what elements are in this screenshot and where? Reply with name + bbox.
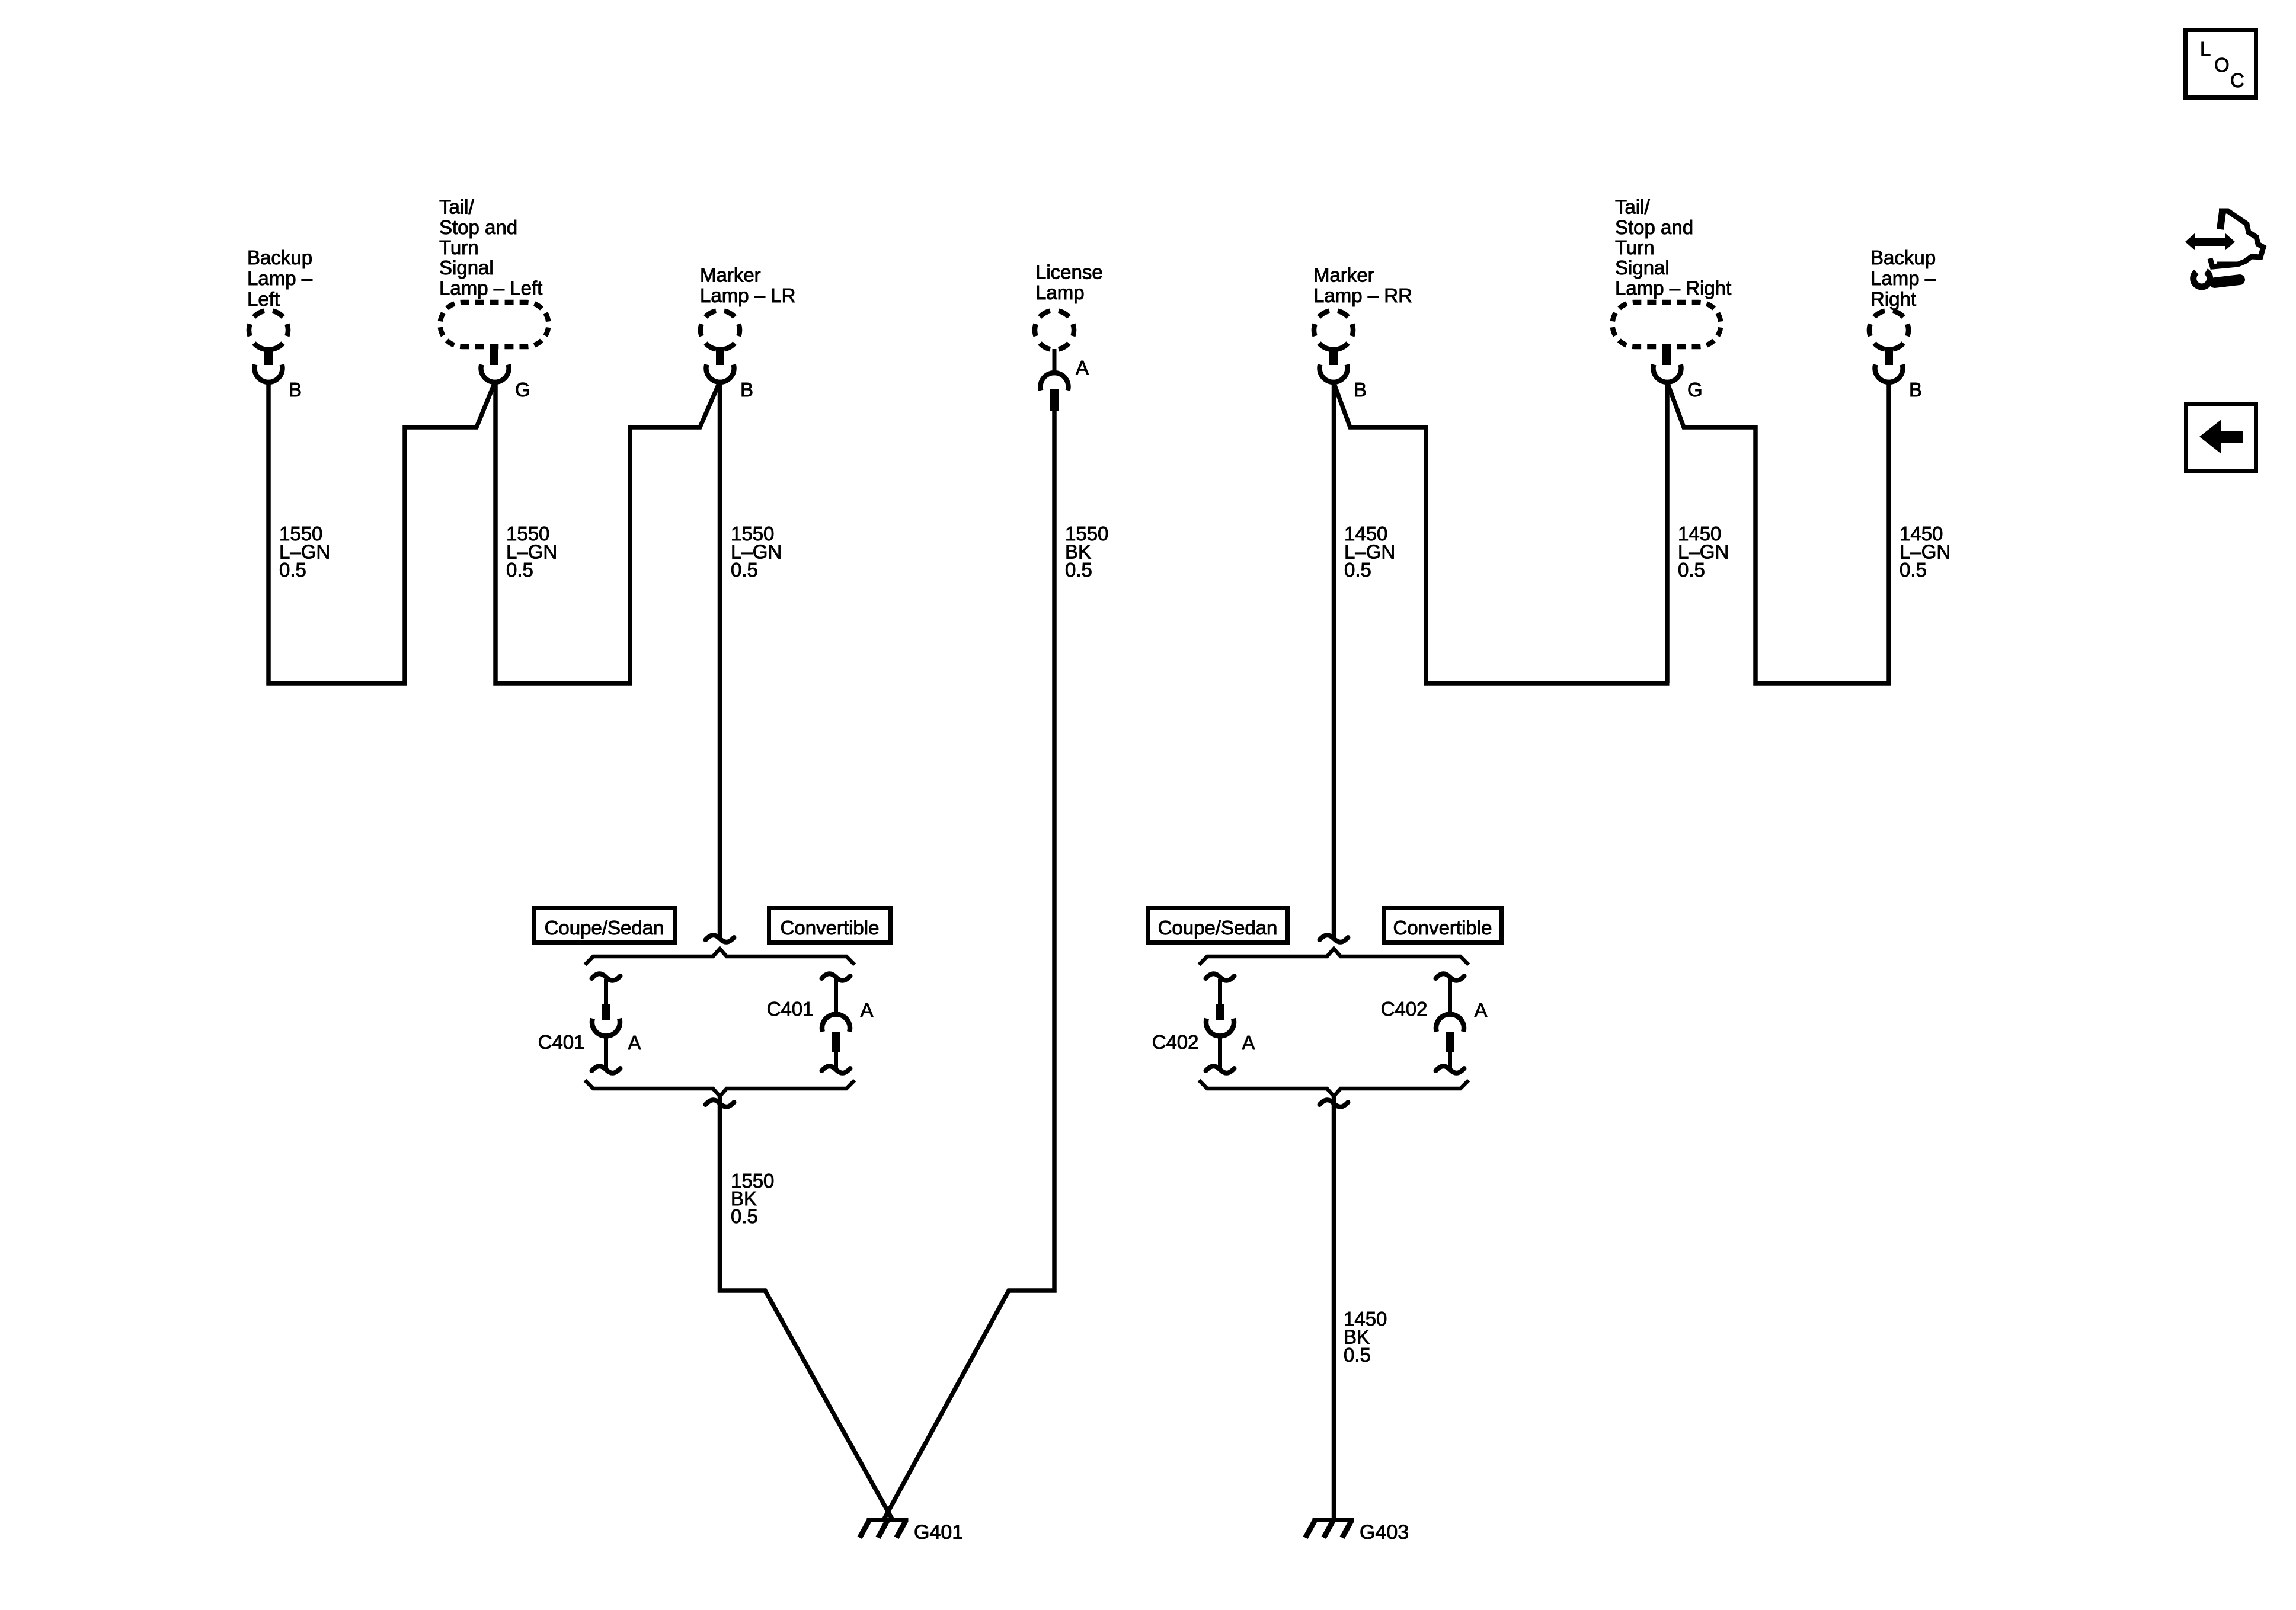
svg-text:Signal: Signal [1615, 257, 1670, 279]
wire break [706, 935, 734, 942]
svg-text:C401: C401 [767, 998, 814, 1020]
svg-text:G403: G403 [1360, 1521, 1409, 1544]
label: circuit 1450 L-GN 0.5 (tail right) [1678, 523, 1729, 581]
option box: Convertible (C402) [1384, 908, 1502, 943]
label: circuit 1550 BK 0.5 (to G401) [731, 1170, 774, 1227]
wire: Marker RR down to C402 (1450 L-GN) [1332, 382, 1336, 937]
svg-text:Marker: Marker [1313, 264, 1374, 286]
svg-text:Lamp – Right: Lamp – Right [1615, 277, 1731, 299]
svg-text:Lamp –: Lamp – [247, 267, 313, 289]
svg-text:G: G [515, 379, 530, 401]
svg-text:A: A [1475, 999, 1488, 1021]
svg-text:C402: C402 [1152, 1031, 1199, 1053]
svg-text:0.5: 0.5 [1065, 559, 1092, 581]
svg-text:Turn: Turn [439, 236, 479, 258]
wire: Backup R drop [1886, 382, 1891, 683]
svg-text:A: A [1242, 1032, 1255, 1054]
svg-text:Turn: Turn [1615, 236, 1655, 258]
lamp: Tail/Stop and Turn Signal Lamp - Left [439, 196, 549, 401]
split bracket top (C402) [1199, 949, 1469, 965]
svg-text:Lamp – Left: Lamp – Left [439, 277, 542, 299]
wire break [1320, 1100, 1348, 1107]
wire break [706, 1100, 734, 1107]
svg-text:A: A [1076, 357, 1089, 379]
lamp: Backup Lamp - Right [1869, 247, 1936, 401]
svg-text:0.5: 0.5 [1900, 559, 1927, 581]
svg-text:Convertible: Convertible [781, 917, 880, 939]
label: circuit 1550 BK 0.5 (license) [1065, 523, 1108, 581]
merge bracket bottom (C401) [585, 1080, 855, 1096]
lamp: Marker Lamp - RR [1313, 264, 1412, 401]
svg-text:Marker: Marker [700, 264, 761, 286]
svg-text:Lamp – LR: Lamp – LR [700, 284, 795, 306]
wire: Tail R drop [1665, 382, 1670, 683]
svg-text:Tail/: Tail/ [439, 196, 475, 218]
label: circuit 1450 L-GN 0.5 (marker RR) [1344, 523, 1395, 581]
svg-text:C402: C402 [1381, 998, 1428, 1020]
svg-text:0.5: 0.5 [506, 559, 533, 581]
svg-text:B: B [289, 379, 302, 401]
wire: Tail L to Marker LR (1550 L-GN) [495, 382, 720, 683]
svg-text:0.5: 0.5 [731, 1205, 758, 1227]
svg-text:A: A [628, 1032, 641, 1054]
svg-text:L: L [2200, 38, 2211, 60]
wire: Backup L to Tail L (1550 L-GN) [268, 382, 495, 683]
svg-text:Convertible: Convertible [1393, 917, 1492, 939]
label: circuit 1450 BK 0.5 (to G403) [1344, 1308, 1387, 1366]
wire: License lamp to G401 (1550 BK) [884, 410, 1054, 1519]
svg-text:Tail/: Tail/ [1615, 196, 1651, 218]
wire: C401 to G401 (1550 BK) [720, 1097, 893, 1519]
svg-text:A: A [861, 999, 874, 1021]
ground G401 [860, 1520, 964, 1544]
svg-text:0.5: 0.5 [1678, 559, 1705, 581]
connector C401 Convertible half (pin A) [767, 974, 874, 1073]
lamp: Tail/Stop and Turn Signal Lamp - Right [1613, 196, 1732, 401]
LOC location-view icon [2186, 30, 2256, 98]
svg-text:C401: C401 [538, 1031, 585, 1053]
svg-text:0.5: 0.5 [279, 559, 306, 581]
option box: Convertible (C401) [769, 908, 891, 943]
svg-text:Backup: Backup [1870, 247, 1936, 268]
svg-text:Lamp – RR: Lamp – RR [1313, 284, 1412, 306]
svg-text:Stop and: Stop and [439, 216, 517, 238]
wire: C402 to G403 (1450 BK) [1332, 1097, 1336, 1520]
label: circuit 1550 L-GN 0.5 (marker LR) [731, 523, 782, 581]
lamp: Backup Lamp - Left [247, 247, 313, 401]
lamp: License Lamp [1035, 261, 1103, 411]
split bracket top (C401) [585, 949, 855, 965]
svg-text:Lamp –: Lamp – [1870, 267, 1936, 289]
svg-text:Stop and: Stop and [1615, 216, 1693, 238]
wire: Marker LR down to C401 (1550 L-GN) [718, 382, 722, 937]
lamp: Marker Lamp - LR [700, 264, 795, 401]
svg-text:Coupe/Sedan: Coupe/Sedan [545, 917, 664, 939]
svg-text:Left: Left [247, 288, 280, 310]
svg-text:G401: G401 [914, 1521, 963, 1544]
option box: Coupe/Sedan (C402) [1148, 908, 1288, 943]
wire: Tail R to Backup R (1450 L-GN) [1667, 382, 1891, 683]
wire break [1320, 935, 1348, 942]
label: circuit 1550 L-GN 0.5 (backup left) [279, 523, 330, 581]
svg-text:O: O [2214, 54, 2230, 76]
label: circuit 1450 L-GN 0.5 (backup right) [1900, 523, 1950, 581]
label: circuit 1550 L-GN 0.5 (tail left) [506, 523, 557, 581]
svg-text:0.5: 0.5 [1344, 1344, 1371, 1366]
svg-text:G: G [1687, 379, 1703, 401]
svg-text:B: B [1909, 379, 1922, 401]
connector C402 Coupe/Sedan half (pin A) [1152, 974, 1255, 1073]
connector C402 Convertible half (pin A) [1381, 974, 1488, 1073]
svg-text:Right: Right [1870, 288, 1916, 310]
ground G403 [1306, 1520, 1409, 1544]
svg-text:License: License [1035, 261, 1103, 283]
option box: Coupe/Sedan (C401) [534, 908, 675, 943]
vehicle service icon (double arrow, body outline, wrench) [2185, 211, 2263, 287]
wire: Marker RR to Tail R (1450 L-GN) [1334, 382, 1670, 683]
back arrow icon [2186, 404, 2256, 472]
svg-text:C: C [2230, 69, 2244, 91]
svg-text:Backup: Backup [247, 247, 312, 268]
svg-text:Signal: Signal [439, 257, 494, 279]
svg-text:B: B [1354, 379, 1367, 401]
svg-text:0.5: 0.5 [731, 559, 758, 581]
connector C401 Coupe/Sedan half (pin A) [538, 974, 641, 1073]
merge bracket bottom (C402) [1199, 1080, 1469, 1096]
svg-text:0.5: 0.5 [1344, 559, 1371, 581]
svg-text:Lamp: Lamp [1035, 281, 1085, 303]
svg-text:Coupe/Sedan: Coupe/Sedan [1158, 917, 1278, 939]
svg-text:B: B [740, 379, 753, 401]
